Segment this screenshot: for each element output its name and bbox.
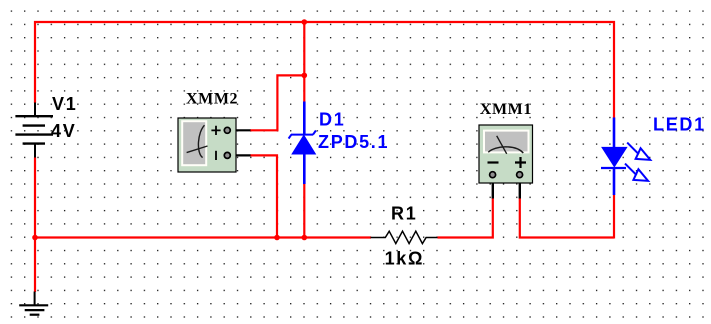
resistor R1 [371, 231, 439, 243]
svg-text:XMM2: XMM2 [186, 91, 238, 108]
LED LED1 [601, 118, 650, 196]
pin stub plus XMM2 [231, 129, 251, 131]
XMM1 meter arc [488, 147, 523, 153]
XMM2 terminal minus [224, 152, 230, 158]
wire XMM2 minus down to bottom rail [250, 155, 277, 238]
wire bottom rail right segment to XMM1 minus [438, 198, 493, 238]
junction left-bottom [32, 235, 38, 241]
XMM2 plus mark [211, 126, 220, 135]
LED arrow 2 [625, 164, 637, 176]
junction zener node / XMM2 plus [302, 73, 308, 79]
svg-text:1kΩ: 1kΩ [385, 248, 425, 268]
wire bottom rail left segment [34, 236, 371, 238]
zener diode D1 [289, 102, 316, 185]
zener branch red upper [303, 21, 305, 103]
svg-text:ZPD5.1: ZPD5.1 [318, 132, 389, 152]
svg-text:D1: D1 [319, 109, 345, 129]
LED arrow 1 [627, 143, 639, 155]
XMM2 needle [187, 146, 208, 153]
wire XMM1 plus to LED branch [520, 198, 614, 238]
LED branch red upper [613, 21, 615, 119]
wire XMM2 plus to zener top node [250, 75, 304, 130]
XMM2 terminal plus [224, 127, 230, 133]
pin stub plus XMM1 [519, 177, 521, 199]
LED branch red lower [613, 194, 615, 238]
zener branch red lower [303, 183, 305, 238]
svg-text:V1: V1 [52, 94, 77, 114]
XMM2 meter arc [198, 125, 204, 157]
XMM1 minus mark [488, 161, 499, 163]
wire left rail upper [34, 21, 36, 103]
XMM1 plus mark [515, 157, 526, 168]
junction bottom rail / XMM2 minus [274, 235, 280, 241]
svg-text:R1: R1 [391, 203, 417, 223]
svg-text:LED1: LED1 [653, 115, 706, 135]
ground [19, 292, 48, 315]
pin stub minus XMM2 [231, 154, 251, 156]
XMM1 terminal plus [517, 172, 523, 178]
XMM2 minus mark (vertical) [215, 151, 217, 160]
svg-text:XMM1: XMM1 [480, 101, 532, 118]
svg-text:4V: 4V [51, 121, 76, 141]
multimeter XMM1 [479, 125, 533, 199]
multimeter XMM2 [178, 118, 251, 172]
wire top rail [34, 21, 615, 23]
junction zener bottom [302, 235, 308, 241]
XMM1 terminal minus [490, 172, 496, 178]
pin stub minus XMM1 [492, 177, 494, 199]
junction top rail / zener [302, 19, 308, 25]
XMM1 needle [497, 136, 507, 154]
battery V1 [15, 103, 53, 159]
wire left rail lower [34, 158, 36, 293]
